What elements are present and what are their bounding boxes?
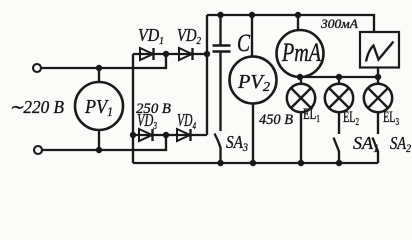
svg-text:PV1: PV1 xyxy=(84,96,113,119)
node J1 (rail left / PmA bottom) xyxy=(297,74,303,80)
svg-text:∼220 В: ∼220 В xyxy=(9,97,64,117)
wire PV2 bottom stub xyxy=(252,104,254,164)
svg-text:300мА: 300мА xyxy=(320,16,358,31)
svg-text:SA3: SA3 xyxy=(226,132,248,154)
voltmeter PV1 xyxy=(75,82,123,130)
node J2 (rail middle) xyxy=(336,74,342,80)
svg-text:C: C xyxy=(237,30,250,57)
terminal X2 (bottom input) xyxy=(34,146,42,154)
wire PV2 riser xyxy=(251,15,253,57)
capacitor C xyxy=(213,46,231,52)
diode VD4 xyxy=(177,129,191,141)
switch SA2 xyxy=(373,138,379,164)
switch SA3 xyxy=(215,134,221,164)
voltmeter PV2 xyxy=(230,57,277,104)
wire bottom diode branch xyxy=(133,134,207,136)
indicator box N xyxy=(360,32,399,68)
diode VD3 xyxy=(139,129,153,141)
node F1 (VD3-VD4 midpoint) xyxy=(163,132,169,138)
svg-text:EL3: EL3 xyxy=(383,109,399,128)
svg-text:PmA: PmA xyxy=(281,38,321,67)
node E1 (VD3 anode junction) xyxy=(130,132,136,138)
wire PV1 bottom stub xyxy=(98,130,100,150)
svg-text:VD2: VD2 xyxy=(177,25,201,47)
milliammeter PmA xyxy=(277,30,324,77)
node B (PV1 bottom junction) xyxy=(96,147,102,153)
wire bridge right vertical xyxy=(206,15,208,135)
svg-text:EL2: EL2 xyxy=(343,109,359,128)
diode VD2 xyxy=(179,48,193,60)
node D1 (VD2 cathode junction) xyxy=(204,51,210,57)
lamp EL2 xyxy=(325,77,353,134)
wire bottom bus xyxy=(133,162,378,164)
wire bottom input xyxy=(42,135,166,150)
svg-text:SA1: SA1 xyxy=(353,133,379,155)
svg-text:SA2: SA2 xyxy=(390,133,411,155)
wire PV1 top stub xyxy=(98,68,100,83)
wire top bus xyxy=(207,15,374,32)
node H1 (PV2 tap) xyxy=(249,12,255,18)
terminal X1 (top input) xyxy=(33,64,41,72)
svg-text:VD4: VD4 xyxy=(177,110,196,132)
wire top input xyxy=(41,54,166,68)
svg-text:EL1: EL1 xyxy=(303,106,320,125)
node K4 (SA1 on bus) xyxy=(336,160,342,166)
node C1 (VD1-VD2 midpoint) xyxy=(163,51,169,57)
node K2 (PV2 on bus) xyxy=(250,160,256,166)
node K1 (SA3 on bus) xyxy=(217,160,223,166)
wire bridge left vertical xyxy=(132,54,134,163)
node G1 (capacitor tap) xyxy=(217,12,223,18)
wire capacitor riser xyxy=(219,15,221,45)
node K3 (EL1 on bus) xyxy=(298,160,304,166)
wire PmA top stub xyxy=(297,15,299,30)
svg-text:VD1: VD1 xyxy=(138,25,164,47)
wire box bottom stub xyxy=(377,68,379,78)
diode VD1 xyxy=(140,48,154,60)
wire capacitor to SA3 xyxy=(219,52,221,131)
svg-text:PV2: PV2 xyxy=(237,71,270,95)
lamp EL1 xyxy=(287,77,315,163)
node I1 (PmA tap) xyxy=(295,12,301,18)
node J3 (rail right / box bottom) xyxy=(375,74,381,80)
lamp EL3 xyxy=(364,77,392,134)
node A (PV1 top junction) xyxy=(96,65,102,71)
switch SA1 xyxy=(334,138,340,164)
wire top diode branch xyxy=(133,53,207,55)
wire lamp rail xyxy=(300,76,378,78)
svg-text:450 В: 450 В xyxy=(259,112,293,128)
